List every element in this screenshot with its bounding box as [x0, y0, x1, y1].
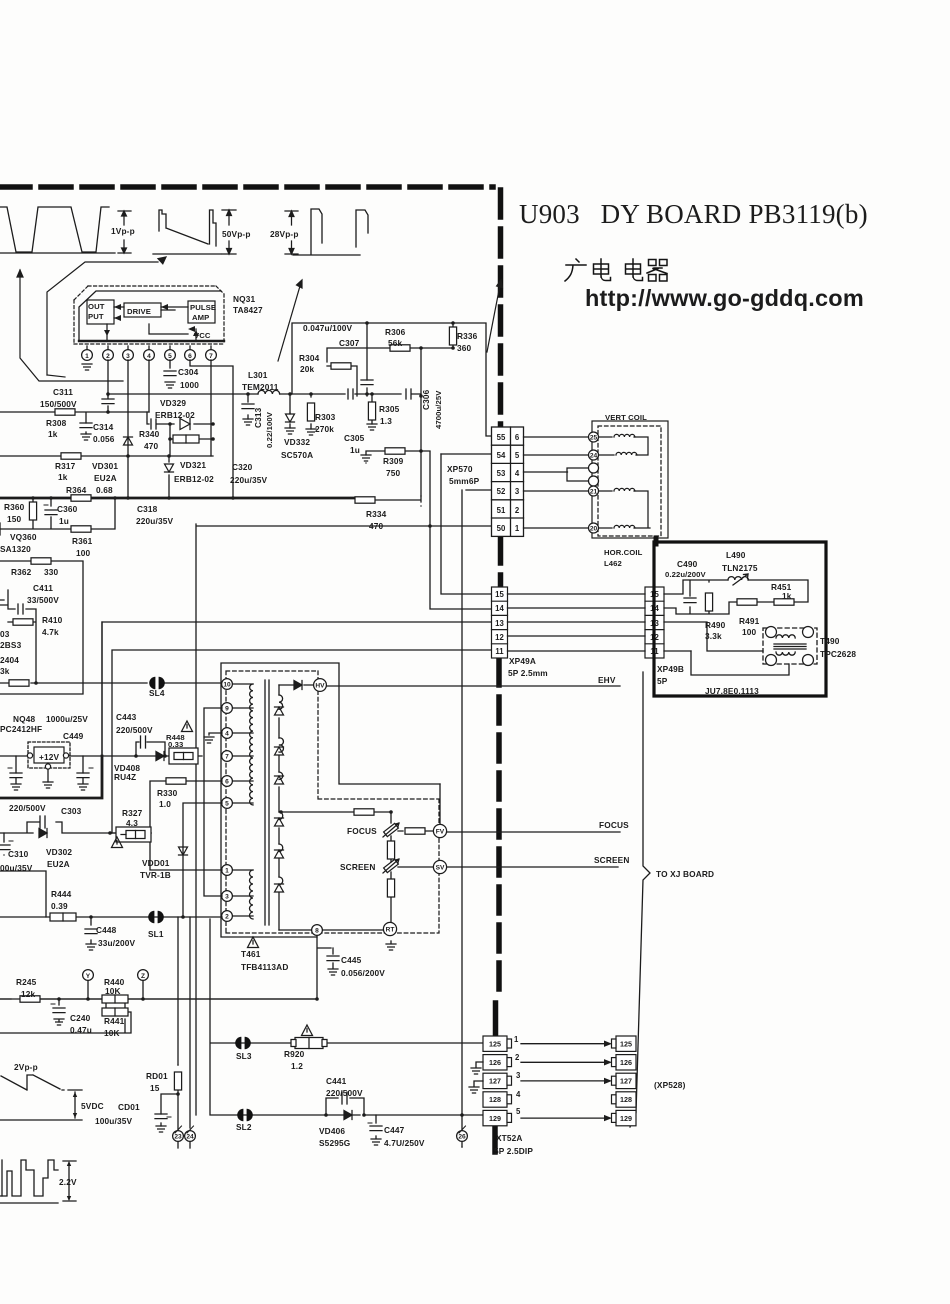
svg-text:R334: R334	[366, 509, 387, 519]
svg-text:4.3: 4.3	[126, 818, 138, 828]
svg-text:JU7.8E0.1113: JU7.8E0.1113	[705, 686, 759, 696]
svg-text:R490: R490	[705, 620, 726, 630]
svg-text:SL1: SL1	[148, 929, 164, 939]
svg-text:5VDC: 5VDC	[81, 1101, 104, 1111]
svg-text:VERT COIL: VERT COIL	[605, 413, 647, 422]
svg-text:15: 15	[495, 590, 504, 599]
svg-text:128: 128	[620, 1095, 632, 1104]
svg-text:R306: R306	[385, 327, 406, 337]
svg-text:C311: C311	[53, 387, 73, 397]
svg-text:53: 53	[497, 469, 506, 478]
svg-text:T461: T461	[241, 949, 261, 959]
svg-text:3: 3	[515, 487, 520, 496]
svg-text:EU2A: EU2A	[94, 473, 117, 483]
svg-text:R361: R361	[72, 536, 93, 546]
svg-text:EU2A: EU2A	[47, 859, 70, 869]
svg-text:C448: C448	[96, 925, 117, 935]
svg-text:0.22u/200V: 0.22u/200V	[665, 570, 707, 579]
svg-text:26: 26	[458, 1134, 466, 1141]
svg-text:1k: 1k	[782, 591, 792, 601]
svg-text:C303: C303	[61, 806, 82, 816]
svg-text:C411: C411	[33, 583, 53, 593]
svg-text:24: 24	[186, 1134, 194, 1141]
svg-text:U903 DY BOARD PB3119(b): U903 DY BOARD PB3119(b)	[519, 199, 868, 229]
svg-text:4700u/25V: 4700u/25V	[434, 390, 443, 429]
svg-text:EHV: EHV	[598, 675, 616, 685]
svg-text:14: 14	[495, 604, 504, 613]
svg-text:470: 470	[144, 441, 159, 451]
svg-text:125: 125	[620, 1040, 632, 1049]
svg-text:128: 128	[489, 1095, 501, 1104]
svg-text:56k: 56k	[388, 338, 403, 348]
svg-text:3: 3	[225, 894, 229, 901]
svg-text:2Vp-p: 2Vp-p	[14, 1062, 38, 1072]
svg-text:TA8427: TA8427	[233, 305, 263, 315]
svg-text:VDD01: VDD01	[142, 858, 170, 868]
svg-text:XP49B: XP49B	[657, 664, 684, 674]
svg-text:33/500V: 33/500V	[27, 595, 59, 605]
svg-text:PULSE: PULSE	[190, 303, 216, 312]
svg-text:C443: C443	[116, 712, 137, 722]
svg-text:220/500V: 220/500V	[116, 725, 153, 735]
svg-text:6: 6	[188, 353, 192, 360]
svg-text:1.0: 1.0	[159, 799, 171, 809]
svg-text:FOCUS: FOCUS	[599, 820, 629, 830]
svg-text:0.39: 0.39	[51, 901, 68, 911]
svg-text:127: 127	[620, 1077, 632, 1086]
svg-text:DRIVE: DRIVE	[127, 307, 151, 316]
svg-text:T490: T490	[820, 636, 840, 646]
svg-text:21: 21	[590, 489, 598, 496]
svg-text:AMP: AMP	[192, 313, 209, 322]
svg-text:15: 15	[150, 1083, 160, 1093]
svg-text:XP49A: XP49A	[509, 656, 536, 666]
svg-text:7: 7	[225, 754, 229, 761]
svg-text:TEM2011: TEM2011	[242, 382, 279, 392]
svg-text:S5295G: S5295G	[319, 1138, 350, 1148]
svg-text:2: 2	[106, 353, 110, 360]
svg-text:SCREEN: SCREEN	[594, 855, 629, 865]
svg-text:220u/35V: 220u/35V	[136, 516, 173, 526]
svg-text:1: 1	[225, 868, 229, 875]
svg-text:2BS3: 2BS3	[0, 640, 22, 650]
svg-text:C490: C490	[677, 559, 698, 569]
svg-text:330: 330	[44, 567, 59, 577]
svg-text:33u/200V: 33u/200V	[98, 938, 135, 948]
svg-text:C441: C441	[326, 1076, 347, 1086]
svg-text:+12V: +12V	[39, 752, 60, 762]
svg-text:55: 55	[497, 433, 506, 442]
svg-text:C320: C320	[232, 462, 253, 472]
svg-text:1000: 1000	[180, 380, 199, 390]
svg-text:2.2V: 2.2V	[59, 1177, 77, 1187]
svg-text:R317: R317	[55, 461, 76, 471]
svg-text:5mm6P: 5mm6P	[449, 476, 480, 486]
svg-text:23: 23	[174, 1134, 182, 1141]
svg-text:R491: R491	[739, 616, 760, 626]
svg-text:C240: C240	[70, 1013, 91, 1023]
svg-text:R444: R444	[51, 889, 72, 899]
svg-text:PUT: PUT	[88, 312, 104, 321]
svg-text:RU4Z: RU4Z	[114, 772, 136, 782]
svg-text:750: 750	[386, 468, 401, 478]
svg-text:1.3: 1.3	[380, 416, 392, 426]
svg-text:http://www.go-gddq.com: http://www.go-gddq.com	[585, 285, 864, 311]
svg-text:270k: 270k	[315, 424, 334, 434]
svg-text:ERB12-02: ERB12-02	[155, 410, 195, 420]
svg-text:10K: 10K	[104, 1028, 120, 1038]
svg-text:1: 1	[514, 1035, 519, 1044]
svg-text:5P 2.5mm: 5P 2.5mm	[508, 668, 548, 678]
svg-text:R308: R308	[46, 418, 67, 428]
svg-text:R920: R920	[284, 1049, 305, 1059]
svg-text:126: 126	[620, 1058, 632, 1067]
svg-text:C318: C318	[137, 504, 158, 514]
svg-text:6: 6	[225, 779, 229, 786]
svg-text:4.7U/250V: 4.7U/250V	[384, 1138, 425, 1148]
svg-text:2: 2	[225, 914, 229, 921]
svg-text:R410: R410	[42, 615, 63, 625]
svg-text:C313: C313	[253, 407, 263, 428]
svg-text:SA1320: SA1320	[0, 544, 31, 554]
svg-text:TO XJ BOARD: TO XJ BOARD	[656, 869, 714, 879]
svg-text:SL2: SL2	[236, 1122, 252, 1132]
svg-text:3k: 3k	[0, 666, 10, 676]
svg-text:220/500V: 220/500V	[326, 1088, 363, 1098]
svg-text:3: 3	[516, 1071, 521, 1080]
svg-text:C447: C447	[384, 1125, 405, 1135]
svg-text:NQ48: NQ48	[13, 714, 36, 724]
svg-text:1u: 1u	[350, 445, 360, 455]
svg-text:4: 4	[515, 469, 520, 478]
svg-text:100u/35V: 100u/35V	[95, 1116, 132, 1126]
svg-text:C306: C306	[421, 389, 431, 410]
svg-text:VD321: VD321	[180, 460, 206, 470]
svg-text:R327: R327	[122, 808, 143, 818]
svg-text:FV: FV	[436, 829, 445, 836]
svg-text:1000u/25V: 1000u/25V	[46, 714, 88, 724]
svg-text:1k: 1k	[48, 429, 58, 439]
svg-text:4: 4	[225, 731, 229, 738]
svg-text:360: 360	[457, 343, 472, 353]
svg-text:52: 52	[497, 487, 506, 496]
svg-text:0.056: 0.056	[93, 434, 115, 444]
svg-text:TLN2175: TLN2175	[722, 563, 758, 573]
svg-text:SC570A: SC570A	[281, 450, 313, 460]
svg-text:R304: R304	[299, 353, 320, 363]
svg-text:Z: Z	[141, 973, 145, 980]
svg-text:R330: R330	[157, 788, 178, 798]
svg-text:0.68: 0.68	[96, 485, 113, 495]
svg-text:C307: C307	[339, 338, 360, 348]
svg-text:20k: 20k	[300, 364, 315, 374]
svg-text:HOR.COIL: HOR.COIL	[604, 548, 643, 557]
svg-text:0.33: 0.33	[168, 740, 183, 749]
svg-text:TVR-1B: TVR-1B	[140, 870, 171, 880]
svg-text:1k: 1k	[58, 472, 68, 482]
svg-text:5: 5	[225, 801, 229, 808]
svg-text:ERB12-02: ERB12-02	[174, 474, 214, 484]
svg-text:R360: R360	[4, 502, 25, 512]
svg-text:10: 10	[223, 682, 231, 689]
svg-text:54: 54	[497, 451, 506, 460]
svg-text:C310: C310	[8, 849, 29, 859]
svg-text:1Vp-p: 1Vp-p	[111, 226, 135, 236]
svg-text:R340: R340	[139, 429, 160, 439]
svg-text:100: 100	[76, 548, 91, 558]
svg-text:12k: 12k	[21, 989, 36, 999]
svg-text:VD406: VD406	[319, 1126, 345, 1136]
svg-text:0.056/200V: 0.056/200V	[341, 968, 385, 978]
svg-text:125: 125	[489, 1040, 501, 1049]
svg-text:R309: R309	[383, 456, 404, 466]
svg-text:12: 12	[495, 633, 504, 642]
svg-text:3: 3	[126, 353, 130, 360]
svg-text:470: 470	[369, 521, 384, 531]
svg-text:R362: R362	[11, 567, 32, 577]
svg-text:24: 24	[590, 453, 598, 460]
svg-text:SL3: SL3	[236, 1051, 252, 1061]
svg-text:9: 9	[225, 706, 229, 713]
svg-text:HV: HV	[315, 683, 325, 690]
svg-text:VCC: VCC	[194, 331, 211, 340]
svg-text:XT52A: XT52A	[496, 1133, 523, 1143]
svg-text:VD332: VD332	[284, 437, 310, 447]
svg-text:CD01: CD01	[118, 1102, 140, 1112]
svg-text:50Vp-p: 50Vp-p	[222, 229, 251, 239]
svg-text:R305: R305	[379, 404, 400, 414]
svg-text:3.3k: 3.3k	[705, 631, 722, 641]
svg-text:RT: RT	[386, 927, 395, 934]
svg-text:C305: C305	[344, 433, 365, 443]
svg-text:220u/35V: 220u/35V	[230, 475, 267, 485]
svg-text:SV: SV	[436, 865, 445, 872]
svg-text:03: 03	[0, 629, 10, 639]
svg-text:XP570: XP570	[447, 464, 473, 474]
svg-text:7: 7	[209, 353, 213, 360]
svg-text:L301: L301	[248, 370, 268, 380]
svg-text:2: 2	[515, 506, 520, 515]
svg-text:Y: Y	[86, 973, 91, 980]
svg-text:FOCUS: FOCUS	[347, 826, 377, 836]
svg-text:0.22/100V: 0.22/100V	[265, 411, 274, 448]
svg-text:R336: R336	[457, 331, 478, 341]
svg-text:13: 13	[495, 619, 504, 628]
svg-text:SL4: SL4	[149, 688, 165, 698]
svg-text:0.047u/100V: 0.047u/100V	[303, 323, 352, 333]
svg-text:4: 4	[516, 1090, 521, 1099]
svg-text:0.47u: 0.47u	[70, 1025, 92, 1035]
svg-text:8: 8	[315, 928, 319, 935]
svg-text:L490: L490	[726, 550, 746, 560]
svg-text:5: 5	[515, 451, 520, 460]
svg-text:5: 5	[168, 353, 172, 360]
svg-text:150/500V: 150/500V	[40, 399, 77, 409]
svg-text:(XP528): (XP528)	[654, 1080, 686, 1090]
svg-text:C360: C360	[57, 504, 78, 514]
svg-text:R441: R441	[104, 1016, 125, 1026]
svg-text:6: 6	[515, 433, 520, 442]
svg-text:129: 129	[489, 1114, 501, 1123]
svg-text:1u: 1u	[59, 516, 69, 526]
svg-text:VD329: VD329	[160, 398, 186, 408]
svg-text:5: 5	[516, 1107, 521, 1116]
svg-text:OUT: OUT	[88, 302, 105, 311]
svg-text:R245: R245	[16, 977, 37, 987]
svg-text:10K: 10K	[105, 986, 121, 996]
svg-text:150: 150	[7, 514, 22, 524]
svg-text:VD302: VD302	[46, 847, 72, 857]
svg-text:VQ360: VQ360	[10, 532, 37, 542]
svg-text:RD01: RD01	[146, 1071, 168, 1081]
svg-text:PC2412HF: PC2412HF	[0, 724, 42, 734]
svg-text:L462: L462	[604, 559, 622, 568]
svg-text:2: 2	[515, 1053, 520, 1062]
svg-text:25: 25	[590, 435, 598, 442]
svg-text:R364: R364	[66, 485, 87, 495]
svg-text:C445: C445	[341, 955, 362, 965]
svg-text:00u/35V: 00u/35V	[0, 863, 33, 873]
svg-text:NQ31: NQ31	[233, 294, 256, 304]
svg-text:R303: R303	[315, 412, 336, 422]
svg-text:4.7k: 4.7k	[42, 627, 59, 637]
svg-text:11: 11	[495, 647, 504, 656]
svg-text:1.2: 1.2	[291, 1061, 303, 1071]
svg-text:VD301: VD301	[92, 461, 118, 471]
svg-text:TFB4113AD: TFB4113AD	[241, 962, 288, 972]
svg-text:C314: C314	[93, 422, 114, 432]
svg-text:5P: 5P	[657, 676, 668, 686]
svg-text:1: 1	[85, 353, 89, 360]
svg-text:100: 100	[742, 627, 757, 637]
svg-text:220/500V: 220/500V	[9, 803, 46, 813]
svg-text:1: 1	[515, 524, 520, 533]
svg-text:20: 20	[590, 526, 598, 533]
svg-text:C304: C304	[178, 367, 199, 377]
svg-text:SCREEN: SCREEN	[340, 862, 375, 872]
svg-text:51: 51	[497, 506, 506, 515]
svg-text:5P 2.5DIP: 5P 2.5DIP	[494, 1146, 533, 1156]
svg-text:C449: C449	[63, 731, 84, 741]
svg-text:2404: 2404	[0, 655, 19, 665]
svg-text:126: 126	[489, 1058, 501, 1067]
svg-text:129: 129	[620, 1114, 632, 1123]
svg-text:127: 127	[489, 1077, 501, 1086]
svg-text:4: 4	[147, 353, 151, 360]
svg-text:50: 50	[497, 524, 506, 533]
svg-text:TPC2628: TPC2628	[820, 649, 856, 659]
svg-text:28Vp-p: 28Vp-p	[270, 229, 299, 239]
